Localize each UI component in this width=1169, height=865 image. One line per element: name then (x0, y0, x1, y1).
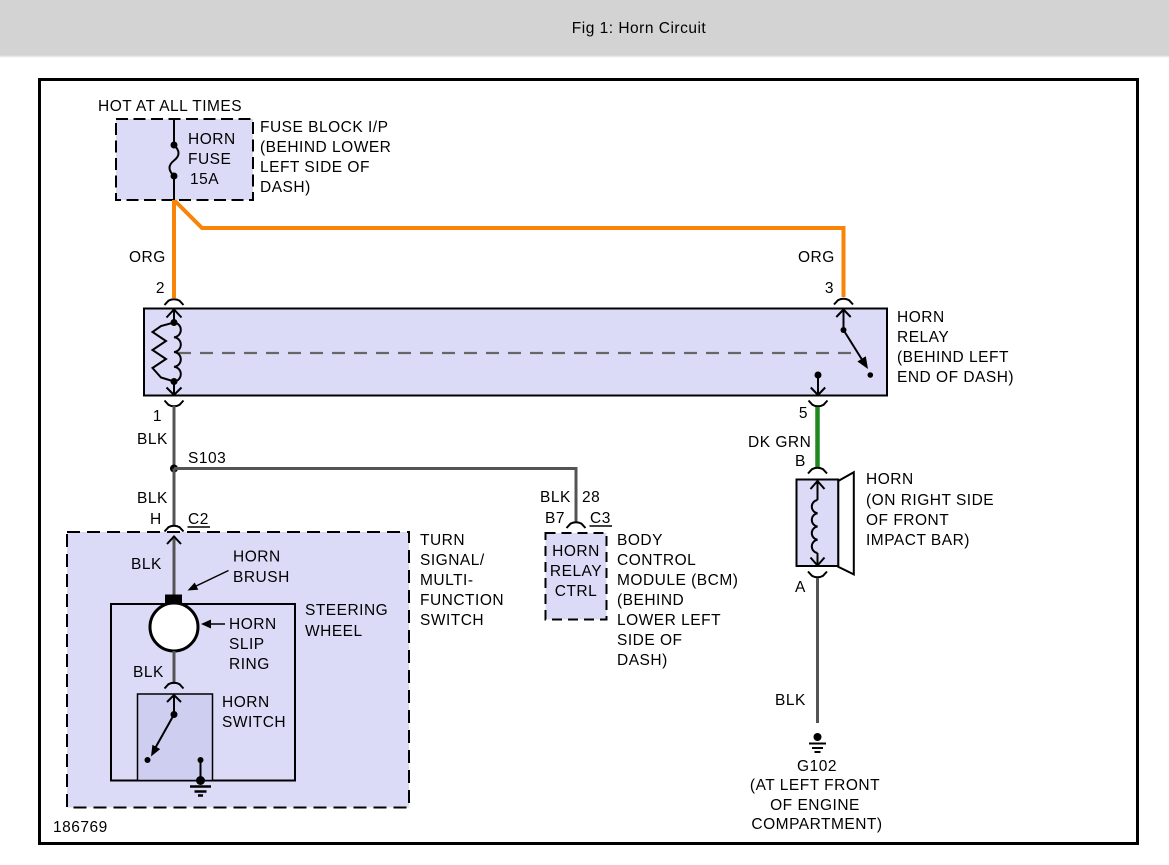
svg-text:BLK: BLK (131, 556, 162, 573)
svg-text:(BEHIND: (BEHIND (617, 592, 684, 609)
svg-text:FUSE BLOCK I/P: FUSE BLOCK I/P (260, 119, 388, 136)
svg-text:MULTI-: MULTI- (420, 572, 474, 589)
svg-text:FUSE: FUSE (188, 151, 231, 168)
svg-text:OF FRONT: OF FRONT (866, 512, 949, 529)
svg-text:B7: B7 (545, 510, 565, 527)
svg-text:(AT LEFT FRONT: (AT LEFT FRONT (750, 777, 880, 794)
svg-text:2: 2 (156, 280, 165, 297)
svg-text:CONTROL: CONTROL (617, 552, 696, 569)
svg-text:H: H (150, 511, 162, 528)
svg-text:MODULE (BCM): MODULE (BCM) (617, 572, 738, 589)
svg-text:15A: 15A (190, 171, 219, 188)
svg-text:WHEEL: WHEEL (305, 623, 363, 640)
svg-text:3: 3 (825, 280, 834, 297)
svg-text:CTRL: CTRL (555, 583, 597, 600)
svg-text:BRUSH: BRUSH (233, 569, 290, 586)
svg-text:BLK: BLK (540, 489, 571, 506)
svg-text:B: B (795, 453, 806, 470)
svg-text:STEERING: STEERING (305, 602, 388, 619)
svg-text:FUNCTION: FUNCTION (420, 592, 504, 609)
svg-text:SWITCH: SWITCH (420, 612, 484, 629)
svg-text:(BEHIND LEFT: (BEHIND LEFT (897, 349, 1009, 366)
svg-text:SWITCH: SWITCH (222, 714, 286, 731)
svg-text:186769: 186769 (53, 819, 108, 836)
svg-text:RELAY: RELAY (897, 329, 949, 346)
svg-text:ORG: ORG (798, 249, 835, 266)
svg-text:BLK: BLK (137, 490, 168, 507)
svg-text:DK GRN: DK GRN (748, 434, 811, 451)
svg-text:BODY: BODY (617, 532, 663, 549)
svg-text:DASH): DASH) (617, 652, 668, 669)
svg-text:S103: S103 (188, 450, 226, 467)
svg-text:HOT AT ALL TIMES: HOT AT ALL TIMES (98, 98, 242, 115)
svg-text:BLK: BLK (775, 692, 806, 709)
svg-text:G102: G102 (797, 758, 837, 775)
svg-text:OF ENGINE: OF ENGINE (770, 797, 860, 814)
svg-text:1: 1 (153, 408, 162, 425)
svg-text:COMPARTMENT): COMPARTMENT) (751, 816, 882, 833)
svg-text:LEFT SIDE OF: LEFT SIDE OF (260, 159, 370, 176)
svg-text:HORN: HORN (233, 549, 281, 566)
svg-text:(ON RIGHT SIDE: (ON RIGHT SIDE (866, 492, 994, 509)
svg-text:RELAY: RELAY (550, 563, 602, 580)
svg-text:HORN: HORN (222, 694, 270, 711)
svg-text:28: 28 (582, 489, 600, 506)
svg-text:SIDE OF: SIDE OF (617, 632, 683, 649)
svg-text:END OF DASH): END OF DASH) (897, 369, 1014, 386)
svg-text:ORG: ORG (129, 249, 166, 266)
svg-text:HORN: HORN (188, 131, 236, 148)
svg-text:BLK: BLK (133, 664, 164, 681)
svg-text:BLK: BLK (137, 431, 168, 448)
svg-text:Fig 1: Horn Circuit: Fig 1: Horn Circuit (572, 20, 707, 37)
svg-text:RING: RING (229, 656, 270, 673)
svg-text:HORN: HORN (866, 471, 914, 488)
svg-text:SLIP: SLIP (229, 636, 265, 653)
svg-text:DASH): DASH) (260, 179, 311, 196)
svg-text:HORN: HORN (552, 543, 600, 560)
svg-text:(BEHIND LOWER: (BEHIND LOWER (260, 139, 391, 156)
svg-text:HORN: HORN (229, 616, 277, 633)
svg-text:IMPACT BAR): IMPACT BAR) (866, 532, 970, 549)
svg-text:LOWER LEFT: LOWER LEFT (617, 612, 721, 629)
svg-text:A: A (795, 579, 806, 596)
svg-text:C2: C2 (188, 511, 209, 528)
svg-text:HORN: HORN (897, 309, 945, 326)
svg-text:5: 5 (799, 405, 808, 422)
svg-text:SIGNAL/: SIGNAL/ (420, 552, 485, 569)
svg-text:TURN: TURN (420, 532, 465, 549)
svg-text:C3: C3 (590, 510, 611, 527)
